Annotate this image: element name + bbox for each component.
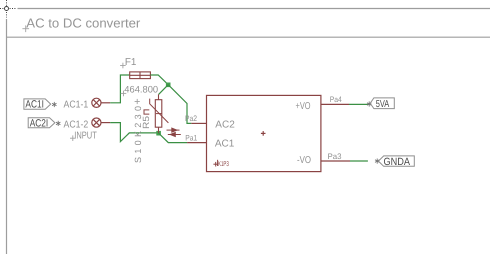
net flag AC2I asterisk bbox=[56, 121, 60, 126]
net flag 5VA asterisk bbox=[367, 101, 371, 106]
title text origin cross bbox=[22, 25, 29, 32]
varistor R5 bracket mark bbox=[144, 110, 149, 114]
svg-text:Pa3: Pa3 bbox=[328, 152, 343, 161]
svg-text:AC2: AC2 bbox=[215, 119, 235, 130]
varistor R5 diagonal arrow bbox=[150, 99, 169, 123]
connector pin AC1-2 stub bbox=[101, 122, 111, 124]
power module pin AC1 bbox=[187, 142, 206, 144]
svg-text:+VO: +VO bbox=[296, 101, 311, 112]
sheet origin crosshair bbox=[0, 0, 17, 18]
svg-text:AC1: AC1 bbox=[215, 139, 235, 150]
net flag AC2I bbox=[28, 117, 55, 129]
svg-text:AC1-2: AC1-2 bbox=[64, 119, 89, 130]
sheet frame left border bbox=[6, 19, 8, 254]
connector pin AC1-1 stub bbox=[101, 102, 111, 104]
svg-text:AC2I: AC2I bbox=[30, 117, 49, 129]
svg-text:5VA: 5VA bbox=[376, 99, 390, 110]
wire junction A to varistor top bbox=[159, 85, 169, 95]
wire junction B to IC pin AC1 bbox=[158, 133, 187, 143]
varistor value S10K230 origin cross bbox=[135, 99, 140, 104]
bidirectional arrows marker bbox=[167, 128, 181, 136]
wire junction A to IC pin AC2 bbox=[168, 85, 191, 124]
power module pin AC2 bbox=[191, 122, 206, 124]
svg-text:AC to DC converter: AC to DC converter bbox=[26, 15, 141, 30]
power module tiny name text cross bbox=[213, 160, 218, 167]
junction A bbox=[166, 83, 171, 88]
fuse F1 bbox=[130, 72, 151, 79]
net flag GNDA asterisk bbox=[375, 159, 379, 164]
svg-text:INPUT: INPUT bbox=[74, 131, 97, 142]
svg-text:Pa2: Pa2 bbox=[185, 114, 197, 123]
svg-text:S10K230: S10K230 bbox=[133, 106, 143, 163]
svg-text:F1: F1 bbox=[125, 57, 137, 68]
net flag 5VA bbox=[370, 98, 394, 110]
sheet frame top border bbox=[18, 8, 490, 10]
power module pin -VO bbox=[321, 160, 350, 162]
svg-text:-VO: -VO bbox=[297, 155, 311, 166]
svg-text:K1P3: K1P3 bbox=[218, 161, 229, 168]
net flag GNDA bbox=[378, 156, 414, 168]
wire -VO toward GNDA flag bbox=[350, 160, 368, 162]
label INPUT origin cross bbox=[70, 135, 76, 141]
wire fuse to junction A bbox=[150, 75, 168, 85]
power module origin cross bbox=[261, 131, 266, 136]
net flag AC1I asterisk bbox=[52, 102, 56, 107]
svg-text:Pa4: Pa4 bbox=[330, 95, 342, 104]
power module U1 body bbox=[207, 95, 321, 171]
title bar divider bbox=[7, 36, 490, 38]
svg-text:AC1-1: AC1-1 bbox=[64, 100, 89, 111]
connector pin AC1-2 circle bbox=[92, 118, 101, 127]
label F1 origin cross bbox=[120, 63, 126, 69]
varistor R5 body bbox=[155, 94, 162, 132]
connector pin AC1-1 circle bbox=[92, 98, 101, 107]
junction B bbox=[156, 131, 161, 136]
net flag AC1I bbox=[24, 99, 51, 111]
svg-text:AC1I: AC1I bbox=[25, 99, 44, 111]
wire AC1-1 to fuse bbox=[110, 75, 130, 103]
wire AC1-2 to junction B bbox=[110, 123, 158, 142]
svg-text:464.800: 464.800 bbox=[124, 85, 158, 96]
power module pin +VO bbox=[321, 103, 349, 105]
svg-text:Pa1: Pa1 bbox=[185, 133, 197, 142]
value 464.800 origin cross bbox=[121, 91, 127, 97]
wire +VO to 5VA flag bbox=[349, 103, 369, 105]
svg-text:GNDA: GNDA bbox=[384, 156, 411, 168]
